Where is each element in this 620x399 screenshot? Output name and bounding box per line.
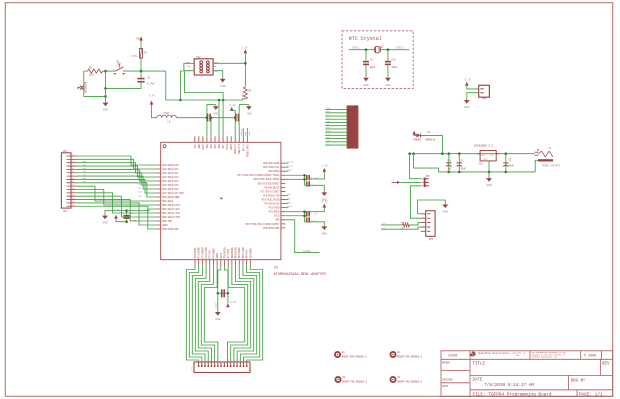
bottom bus left group	[186, 266, 198, 362]
svg-text:GND: GND	[486, 184, 492, 187]
ground	[222, 78, 224, 79]
connector J1 filled	[347, 106, 358, 148]
connector JP6	[479, 85, 490, 97]
svg-text:TOSC1: TOSC1	[352, 47, 360, 50]
connector JP1 bottom	[194, 362, 250, 373]
svg-text:D4: D4	[428, 131, 431, 134]
ground	[217, 311, 219, 312]
wire	[325, 128, 347, 130]
wire gnd loop	[418, 200, 446, 214]
wire JP4 bus	[77, 166, 157, 177]
svg-text:Q1: Q1	[380, 46, 383, 49]
svg-text:DRAWN: DRAWN	[442, 362, 450, 365]
svg-text:F1: F1	[144, 52, 147, 55]
svg-text:REV: REV	[602, 362, 610, 366]
wire	[105, 71, 107, 101]
bottom bus right group	[247, 266, 263, 362]
wire IC2 pin2 loop	[185, 71, 224, 137]
ground	[104, 215, 106, 216]
svg-text:MICROUSB: MICROUSB	[85, 81, 88, 93]
svg-text:PD7/TXD1/SCK/CLKOUT/EVOUT: PD7/TXD1/SCK/CLKOUT/EVOUT	[246, 223, 280, 226]
U1 right pin names	[238, 162, 281, 230]
wire JP4 lower bus	[77, 186, 157, 201]
svg-text:JP4: JP4	[62, 210, 67, 213]
svg-text:GND: GND	[215, 318, 221, 321]
svg-text:PE3: PE3	[206, 144, 209, 149]
capacitor C2	[140, 71, 142, 78]
svg-text:NC: NC	[188, 65, 191, 68]
svg-text:C3: C3	[508, 159, 511, 162]
svg-text:RTC Crystal: RTC Crystal	[349, 36, 382, 42]
svg-text:PC7/SCK/CLKOUT: PC7/SCK/CLKOUT	[260, 190, 280, 193]
svg-text:GND: GND	[275, 219, 280, 222]
svg-text:U1: U1	[274, 267, 278, 271]
wire JP4 lower bus	[77, 196, 157, 217]
U1 left pins	[156, 165, 161, 229]
svg-text:CLKOUT: CLKOUT	[303, 250, 312, 253]
wire	[400, 181, 421, 183]
svg-text:MBRA140: MBRA140	[426, 138, 436, 141]
svg-text:PD1/XCK0: PD1/XCK0	[235, 247, 238, 258]
capacitor C10	[221, 289, 223, 297]
svg-text:AVCC: AVCC	[202, 144, 205, 150]
fuse F1	[140, 49, 143, 59]
svg-text:PA0/ADC0/AC0: PA0/ADC0/AC0	[162, 164, 179, 167]
svg-text:VCC1: VCC1	[226, 144, 229, 150]
svg-text:PD3/TXD0: PD3/TXD0	[242, 247, 245, 258]
mount pad H3	[335, 376, 342, 383]
svg-text:IC2: IC2	[196, 56, 201, 59]
wire JP4 lower bus	[77, 190, 157, 206]
wire JP4 lower bus	[77, 203, 157, 225]
wire	[421, 135, 443, 153]
oscillator IC2	[194, 59, 213, 75]
supply arrow 5V	[139, 37, 143, 41]
svg-text:PE4: PE4	[210, 144, 213, 149]
svg-text:PC2/RXD0: PC2/RXD0	[269, 211, 280, 214]
wire JP4 pin1 to U1	[77, 156, 157, 165]
svg-text:GND: GND	[363, 84, 369, 87]
junction	[441, 152, 444, 155]
svg-text:R5: R5	[89, 67, 93, 70]
wire	[410, 186, 421, 218]
svg-text:GND: GND	[103, 109, 109, 112]
svg-text:PE6: PE6	[218, 144, 221, 149]
svg-text:LP2985M5-3.3: LP2985M5-3.3	[474, 144, 494, 147]
svg-text:10uF: 10uF	[460, 168, 466, 171]
svg-text:PA3/ADC3/AC3: PA3/ADC3/AC3	[162, 176, 179, 179]
svg-text:PF4/SS: PF4/SS	[209, 250, 212, 259]
svg-text:3.3V: 3.3V	[465, 79, 472, 82]
mount pad H1	[390, 351, 397, 358]
svg-text:JP2: JP2	[429, 238, 434, 241]
svg-text:H1: H1	[397, 351, 400, 354]
svg-text:PE5: PE5	[214, 144, 217, 149]
svg-text:PB4/ADC12/TDI: PB4/ADC12/TDI	[162, 212, 180, 215]
svg-text:JP4: JP4	[62, 150, 67, 153]
U1 center mark	[221, 198, 223, 200]
switch S1	[114, 70, 126, 72]
svg-text:PE2/RXD0: PE2/RXD0	[269, 170, 280, 173]
svg-text:FILE: TQFP64 Programming Board: FILE: TQFP64 Programming Board	[473, 392, 552, 397]
svg-text:TITLE: TITLE	[473, 362, 486, 366]
svg-text:NC0/SCK/SS/EVOUT: NC0/SCK/SS/EVOUT	[258, 182, 280, 185]
wire	[305, 222, 325, 226]
wire TOSC2	[381, 49, 410, 51]
svg-text:DRG Nº: DRG Nº	[571, 377, 587, 383]
svg-text:2: 2	[125, 68, 127, 71]
wire	[140, 41, 142, 49]
test pad MICROUSB	[80, 86, 83, 90]
svg-text:3.3V: 3.3V	[149, 94, 156, 97]
wire center reset	[218, 266, 221, 294]
svg-text:22pF: 22pF	[370, 66, 376, 69]
wire	[325, 138, 347, 140]
junction	[448, 171, 451, 174]
svg-text:10K: 10K	[241, 92, 244, 97]
capacitor C4	[365, 50, 367, 61]
svg-text:OE: OE	[214, 65, 217, 68]
wire gnd rail step	[414, 154, 536, 172]
svg-text:PAGE: 1/1: PAGE: 1/1	[579, 392, 603, 397]
svg-text:PE7: PE7	[222, 144, 225, 149]
svg-text:1: 1	[198, 360, 199, 362]
title block	[441, 351, 613, 397]
svg-text:3: 3	[204, 360, 205, 362]
junction	[104, 70, 107, 73]
svg-text:PB2/ADC10/AC0: PB2/ADC10/AC0	[162, 204, 180, 207]
svg-text:VCC: VCC	[214, 61, 218, 64]
wire	[325, 112, 347, 114]
op-amp U1 ATXMEGA256A3 main IC body	[161, 142, 281, 259]
net stub PDI	[285, 195, 288, 197]
wire	[84, 71, 106, 96]
svg-text:MOUNT-PAD-ROUND2.8: MOUNT-PAD-ROUND2.8	[397, 355, 422, 358]
svg-text:PF7/SCK: PF7/SCK	[227, 248, 230, 258]
svg-text:JP1: JP1	[249, 367, 252, 372]
svg-text:IC1: IC1	[479, 163, 484, 166]
svg-text:PF0/OC0A: PF0/OC0A	[194, 247, 197, 258]
junction	[104, 87, 107, 90]
svg-text:PD4/SS: PD4/SS	[246, 250, 249, 259]
svg-text:PF2/RXD0: PF2/RXD0	[201, 247, 204, 258]
wire JP4 bus	[77, 169, 157, 181]
svg-text:4: 4	[207, 360, 208, 362]
svg-text:GND: GND	[464, 106, 470, 109]
wire center vcc	[224, 266, 227, 294]
svg-text:1uF: 1uF	[447, 168, 452, 171]
regulator IC1 LP2985	[480, 151, 496, 161]
svg-text:PA6: PA6	[138, 194, 142, 197]
svg-text:10uF: 10uF	[508, 165, 514, 168]
svg-text:PA7/ADC7/AC7/OUT: PA7/ADC7/AC7/OUT	[162, 192, 184, 195]
svg-text:JP6: JP6	[482, 97, 487, 100]
wire JP4 bus	[77, 163, 157, 173]
RTC crystal dashed box	[342, 31, 413, 89]
svg-text:DATE: DATE	[442, 385, 449, 388]
wire	[325, 125, 347, 127]
svg-text:6: 6	[214, 360, 215, 362]
supply 3.3V	[227, 293, 229, 303]
svg-text:100: 100	[89, 74, 94, 77]
net stub VBAT	[285, 170, 288, 172]
svg-text:10: 10	[227, 360, 229, 362]
svg-text:RST: RST	[244, 131, 247, 135]
svg-text:PD4/OC1B/SS: PD4/OC1B/SS	[265, 186, 281, 189]
svg-text:VCC3: VCC3	[220, 252, 223, 258]
svg-text:MOUNT-PAD-ROUND2.8: MOUNT-PAD-ROUND2.8	[397, 380, 422, 383]
svg-text:PC5/XCK1/OC1B: PC5/XCK1/OC1B	[262, 198, 280, 201]
supply POWER arrow	[412, 131, 416, 135]
svg-text:PD2/RXD0: PD2/RXD0	[238, 247, 241, 258]
svg-text:PDI_D: PDI_D	[242, 144, 245, 151]
wire	[325, 134, 347, 136]
resistor R5	[84, 70, 88, 72]
svg-text:16: 16	[246, 360, 248, 362]
svg-text:7/8/2010 6:24:17 AM: 7/8/2010 6:24:17 AM	[484, 383, 534, 388]
wire	[325, 141, 347, 143]
wire	[242, 128, 244, 136]
svg-text:PA5/ADC5/AC5: PA5/ADC5/AC5	[162, 184, 179, 187]
svg-text:500mA: 500mA	[131, 55, 138, 58]
svg-text:H3: H3	[342, 376, 345, 379]
net stub TOSC2	[285, 166, 288, 168]
wire	[467, 86, 479, 89]
U1 top pin names	[194, 144, 250, 157]
U1 bottom pins	[195, 260, 250, 266]
svg-text:OUT: OUT	[481, 153, 486, 156]
wire	[166, 71, 246, 100]
svg-text:VBAT: VBAT	[287, 168, 293, 171]
U1 right pins	[281, 163, 286, 228]
svg-text:C2: C2	[147, 76, 151, 79]
svg-text:15: 15	[243, 360, 245, 362]
wire	[467, 93, 479, 99]
wire	[325, 131, 347, 133]
capacitor C3	[505, 154, 507, 172]
svg-text:PR1/XT1: PR1/XT1	[238, 144, 241, 154]
capacitor C7 decoupling	[206, 105, 208, 137]
svg-text:PB0/ADC8/AREF: PB0/ADC8/AREF	[162, 196, 180, 199]
svg-text:DAT: DAT	[186, 61, 190, 64]
svg-text:7: 7	[217, 360, 218, 362]
svg-text:PB3/ADC11/AC1: PB3/ADC11/AC1	[162, 208, 180, 211]
wire	[535, 160, 538, 172]
svg-text:GND1: GND1	[230, 144, 233, 150]
ground	[488, 177, 490, 178]
wire	[305, 185, 325, 191]
svg-text:GND2: GND2	[162, 224, 168, 227]
wire IC2 pin1 to net	[180, 63, 194, 100]
svg-text:PB5/ADC13/TDO: PB5/ADC13/TDO	[162, 216, 180, 219]
svg-text:PD6/TXD1/RXD1/TOSC2: PD6/TXD1/RXD1/TOSC2	[254, 178, 280, 181]
svg-text:2: 2	[201, 360, 202, 362]
svg-text:GND: GND	[443, 211, 449, 214]
ground	[105, 102, 107, 103]
svg-text:PCB/OC0A/SDA: PCB/OC0A/SDA	[263, 227, 280, 230]
wire JP4 bus	[77, 176, 157, 189]
wire IC2 GND	[213, 71, 223, 78]
svg-text:X2: X2	[392, 178, 395, 181]
svg-text:TOSC2: TOSC2	[287, 164, 294, 167]
wire CLKOUT	[285, 220, 319, 253]
svg-text:SparkFun Electronics: SparkFun Electronics	[479, 351, 511, 355]
svg-text:PE1/XCK0/SCL: PE1/XCK0/SCL	[263, 166, 280, 169]
capacitor C13	[387, 50, 389, 61]
svg-text:VCC: VCC	[194, 144, 197, 149]
svg-text:3.3V: 3.3V	[241, 46, 248, 49]
U1 left pin names	[162, 164, 184, 231]
junction	[365, 48, 368, 51]
svg-text:GND: GND	[198, 144, 201, 149]
svg-text:PR0/XT2: PR0/XT2	[234, 144, 237, 154]
svg-text:3.3V: 3.3V	[229, 104, 236, 107]
U1 bottom pin names	[194, 247, 252, 258]
svg-text:GND: GND	[483, 157, 488, 160]
svg-text:3.3V: 3.3V	[322, 200, 329, 203]
net stub TOSC1	[285, 162, 288, 164]
ground	[387, 77, 389, 78]
svg-text:GND: GND	[102, 222, 108, 225]
svg-text:12: 12	[233, 360, 235, 362]
ground	[365, 77, 367, 78]
svg-text:PA2/ADC2/AC2: PA2/ADC2/AC2	[162, 172, 179, 175]
jumper JP5	[424, 178, 426, 188]
ground	[444, 203, 446, 204]
svg-text:RESET/PDI: RESET/PDI	[246, 144, 249, 157]
svg-text:© 2009: © 2009	[584, 354, 596, 359]
svg-text:5V: 5V	[136, 38, 140, 41]
svg-text:PA4: PA4	[138, 186, 142, 189]
svg-text:PD0/OC0A: PD0/OC0A	[231, 247, 234, 258]
svg-text:PF3/TXD0: PF3/TXD0	[205, 247, 208, 258]
svg-text:GND: GND	[385, 84, 391, 87]
svg-text:PDI: PDI	[287, 193, 291, 196]
wire JP4 lower bus	[77, 206, 157, 229]
connector JP4	[61, 153, 71, 208]
wire JP4 pin2 to U1	[77, 159, 157, 169]
svg-text:ISSUE: ISSUE	[448, 353, 458, 357]
svg-text:1: 1	[113, 68, 115, 71]
resistor R2	[243, 87, 247, 99]
inductor L3	[152, 105, 157, 118]
svg-text:11: 11	[230, 360, 232, 362]
junction	[179, 99, 182, 102]
crystal Q1	[376, 47, 380, 53]
svg-text:PDI_D: PDI_D	[240, 129, 243, 136]
svg-text:PB1/ADC9: PB1/ADC9	[162, 200, 173, 203]
svg-text:0.1uF: 0.1uF	[311, 213, 318, 216]
svg-text:PA6/ADC6/AC6: PA6/ADC6/AC6	[162, 188, 179, 191]
svg-text:GND: GND	[220, 85, 226, 88]
svg-text:9: 9	[223, 360, 224, 362]
wire IC2 VCC	[213, 62, 245, 64]
connector JP2	[426, 211, 435, 237]
diode D4	[416, 133, 420, 137]
sparkfun logo	[471, 351, 475, 356]
wire	[325, 118, 347, 120]
svg-text:4.7uF: 4.7uF	[147, 83, 155, 86]
wire	[218, 100, 220, 136]
wire JP4 bus	[77, 183, 157, 197]
svg-text:H4: H4	[342, 351, 345, 354]
svg-text:USA: USA	[516, 354, 520, 357]
mount pad H2	[390, 376, 397, 383]
U1 top pins	[195, 136, 248, 142]
svg-text:PA5: PA5	[138, 190, 142, 193]
svg-text:MOUNT-PAD-ROUND2.8: MOUNT-PAD-ROUND2.8	[342, 380, 367, 383]
svg-text:MOUNT-PAD-ROUND2.8: MOUNT-PAD-ROUND2.8	[342, 355, 367, 358]
wire	[217, 293, 219, 311]
svg-text:ATXMEGA256A3-RENL-ADAPTER: ATXMEGA256A3-RENL-ADAPTER	[274, 273, 327, 277]
svg-text:PD7/TXD1/SCK/CLKOUT/EVOUT/TOSC: PD7/TXD1/SCK/CLKOUT/EVOUT/TOSC1	[238, 174, 281, 177]
svg-text:C5: C5	[460, 159, 463, 162]
svg-text:PE0/SDA/OC0A: PE0/SDA/OC0A	[263, 162, 280, 165]
svg-text:C4: C4	[370, 58, 373, 61]
net flag X2	[392, 181, 398, 183]
wire JP4 lower bus	[77, 200, 157, 221]
svg-text:PC4/OC1A/SS: PC4/OC1A/SS	[265, 203, 281, 206]
svg-text:PF6/MISO: PF6/MISO	[223, 247, 226, 258]
decoupling cluster C8/C14	[285, 174, 304, 176]
wire	[127, 209, 157, 211]
svg-text:PF5/MOSI: PF5/MOSI	[212, 247, 215, 258]
svg-text:GND: GND	[247, 113, 252, 116]
svg-text:C11: C11	[447, 159, 452, 162]
svg-text:14: 14	[240, 360, 242, 362]
svg-text:PA4/ADC4/AC4: PA4/ADC4/AC4	[162, 180, 179, 183]
svg-text:PC3/TXD0: PC3/TXD0	[269, 207, 280, 210]
svg-text:TOSC2: TOSC2	[396, 47, 404, 50]
wire	[140, 58, 142, 71]
svg-text:L3: L3	[167, 120, 170, 123]
svg-text:PCB/TXD0/SDA: PCB/TXD0/SDA	[162, 228, 179, 231]
svg-text:13: 13	[236, 360, 238, 362]
svg-text:R2: R2	[248, 90, 251, 93]
svg-text:POWER_JACKPTH: POWER_JACKPTH	[542, 164, 561, 167]
svg-text:GND: GND	[214, 113, 219, 116]
svg-text:8: 8	[220, 360, 221, 362]
wire	[325, 144, 347, 146]
power jack J2	[535, 152, 539, 155]
wire	[325, 121, 347, 123]
svg-text:H2: H2	[397, 376, 400, 379]
svg-text:RST: RST	[287, 197, 291, 200]
svg-text:C13: C13	[392, 58, 397, 61]
svg-text:3.3V: 3.3V	[322, 165, 329, 168]
ground	[323, 191, 325, 192]
svg-text:VCC2: VCC2	[274, 215, 280, 218]
svg-text:SCK: SCK	[287, 201, 291, 204]
capacitor C11	[448, 154, 450, 172]
wire	[410, 154, 421, 179]
wire	[105, 211, 127, 215]
wire	[325, 115, 347, 117]
svg-text:CHECKED: CHECKED	[442, 379, 453, 382]
capacitor C5	[458, 154, 460, 172]
wire TOSC1	[349, 49, 375, 51]
svg-text:PA1/ADC1/AC1: PA1/ADC1/AC1	[162, 168, 179, 171]
svg-text:5: 5	[211, 360, 212, 362]
svg-text:RESET: RESET	[215, 301, 218, 308]
wire JP4 lower bus	[77, 193, 157, 213]
wire JP4 bus	[77, 173, 157, 185]
wire	[176, 117, 207, 119]
svg-text:J2: J2	[548, 147, 551, 150]
svg-text:DATE: DATE	[473, 378, 484, 382]
capacitor C6	[123, 215, 129, 217]
svg-text:TOSC1: TOSC1	[287, 160, 294, 163]
